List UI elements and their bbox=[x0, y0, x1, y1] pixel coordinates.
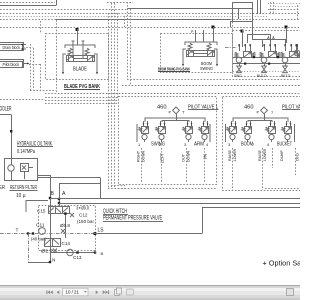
svg-text:T: T bbox=[16, 228, 19, 234]
svg-text:C11: C11 bbox=[36, 223, 45, 228]
svg-text:PERMANENT PRESSURE VALVE: PERMANENT PRESSURE VALVE bbox=[103, 216, 162, 222]
svg-text:B: B bbox=[51, 191, 55, 197]
svg-text:SWING: SWING bbox=[200, 66, 213, 71]
svg-text:460: 460 bbox=[244, 105, 254, 111]
svg-text:3⚭Ø0.8: 3⚭Ø0.8 bbox=[76, 206, 89, 211]
svg-text:C13: C13 bbox=[73, 255, 82, 260]
svg-text:SWG: SWG bbox=[234, 74, 242, 78]
svg-text:+ Option Sa: + Option Sa bbox=[263, 259, 301, 268]
svg-text:C15: C15 bbox=[37, 209, 46, 214]
svg-text:0.147MPa: 0.147MPa bbox=[17, 149, 35, 155]
svg-text:460: 460 bbox=[157, 105, 167, 111]
svg-text:BUCKET: BUCKET bbox=[277, 142, 293, 148]
svg-text:DUMP: DUMP bbox=[279, 150, 284, 161]
svg-text:Drain block: Drain block bbox=[3, 45, 21, 50]
svg-text:10 μ: 10 μ bbox=[16, 193, 26, 199]
svg-text:A: A bbox=[62, 191, 66, 197]
svg-text:BKT.O: BKT.O bbox=[281, 74, 291, 78]
svg-text:P: P bbox=[169, 110, 172, 115]
svg-text:SWING: SWING bbox=[151, 142, 165, 148]
svg-text:LS: LS bbox=[98, 228, 105, 234]
svg-text:BLADE: BLADE bbox=[73, 67, 87, 73]
svg-text:10 / 21: 10 / 21 bbox=[66, 290, 80, 295]
svg-text:Ø0.8: Ø0.8 bbox=[60, 223, 71, 228]
svg-text:Pilot block: Pilot block bbox=[3, 62, 20, 67]
svg-text:COOLER: COOLER bbox=[0, 106, 12, 113]
svg-text:BOOM SWING PVG BANK: BOOM SWING PVG BANK bbox=[158, 67, 190, 72]
svg-text:ER: ER bbox=[0, 185, 5, 191]
svg-text:BOOM: BOOM bbox=[241, 142, 253, 148]
svg-text:N: N bbox=[52, 258, 55, 263]
svg-text:ARM: ARM bbox=[194, 142, 204, 148]
svg-text:C12: C12 bbox=[79, 213, 88, 218]
svg-text:B: B bbox=[101, 251, 104, 256]
svg-text:(150 bar: (150 bar bbox=[77, 219, 95, 224]
svg-text:DIG: DIG bbox=[295, 153, 300, 161]
svg-text:C14: C14 bbox=[62, 241, 71, 246]
svg-text:BLD.O: BLD.O bbox=[257, 74, 267, 78]
svg-text:P: P bbox=[257, 110, 260, 115]
